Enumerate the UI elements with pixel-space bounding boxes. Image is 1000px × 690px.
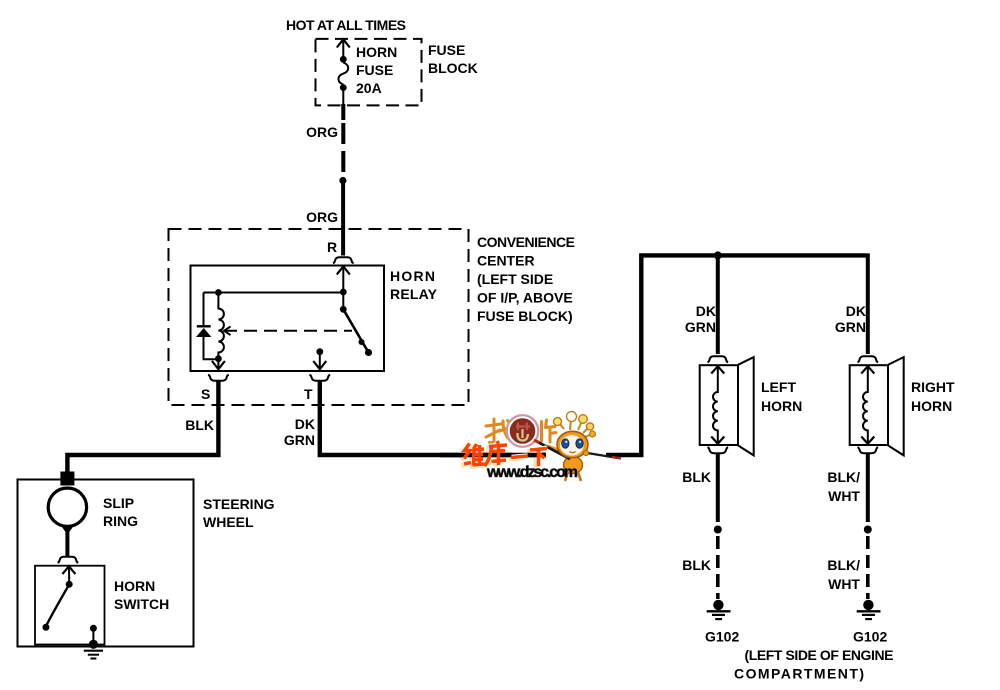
pin label S — [201, 386, 210, 402]
label DK GRN (relay output) — [284, 416, 315, 448]
mechanical linkage (dashed) from coil to contact arm — [224, 327, 352, 336]
pin label R — [327, 239, 337, 255]
label BLK/WHT (right horn lower) — [827, 557, 860, 592]
ground G102 (left) — [707, 600, 731, 619]
label RIGHT HORN — [911, 379, 955, 414]
svg-text:DK: DK — [696, 303, 716, 319]
svg-text:ORG: ORG — [306, 209, 338, 225]
svg-text:(LEFT SIDE: (LEFT SIDE — [477, 271, 553, 287]
ground G102 (right) — [857, 600, 881, 619]
right horn body — [850, 357, 904, 455]
svg-text:DK: DK — [295, 416, 315, 432]
horn switch box — [35, 566, 105, 645]
splice dot on left horn ground wire — [714, 526, 722, 534]
connector (female) at right horn top — [858, 356, 879, 362]
wire DK GRN from relay T to horns — [320, 255, 866, 455]
label G102 (right) — [853, 629, 887, 645]
label BLK (left horn lower) — [682, 557, 711, 573]
node T contact dot — [316, 348, 323, 355]
wire BLK/WHT below right horn (solid) — [866, 453, 870, 522]
svg-text:S: S — [201, 386, 210, 402]
connector (female) at left horn bottom — [708, 447, 729, 453]
label ORG (lower) — [306, 209, 338, 225]
watermark char pian (chip) — [542, 420, 557, 442]
label HORN SWITCH — [114, 578, 169, 612]
connector (female) at left horn top — [708, 356, 729, 362]
svg-text:OF I/P, ABOVE: OF I/P, ABOVE — [477, 290, 573, 306]
wire from slip ring to horn switch — [65, 530, 69, 556]
svg-text:BLK: BLK — [185, 417, 214, 433]
connector (female) above horn switch — [58, 557, 79, 563]
wire BLK below left horn (solid) — [716, 453, 720, 522]
junction node switch pivot — [340, 306, 347, 313]
svg-text:HOT AT ALL TIMES: HOT AT ALL TIMES — [286, 17, 406, 33]
svg-text:G102: G102 — [705, 629, 739, 645]
label DK GRN (left horn) — [685, 303, 716, 335]
wire relay internal horizontal — [204, 292, 344, 294]
horn switch pivot dot — [66, 581, 73, 588]
svg-text:LEFT: LEFT — [761, 379, 796, 395]
junction node coil bottom — [215, 355, 222, 362]
label ORG (upper) — [306, 124, 338, 140]
svg-text:HORN: HORN — [911, 398, 952, 414]
horn switch blade end dot — [42, 624, 49, 631]
svg-text:FUSE: FUSE — [428, 42, 465, 58]
label G102 (left) — [705, 629, 739, 645]
label HORN RELAY — [390, 268, 438, 302]
splice junction dot on ORG wire — [339, 177, 346, 184]
wire ORG lower solid segment to relay terminal R — [341, 181, 345, 256]
svg-text:RELAY: RELAY — [390, 286, 438, 302]
label HOT AT ALL TIMES — [286, 17, 406, 33]
label FUSE BLOCK — [428, 42, 478, 76]
label LEFT SIDE OF ENGINE COMPARTMENT — [734, 647, 894, 682]
svg-text:CENTER: CENTER — [477, 253, 535, 269]
junction dot above fuse — [340, 56, 347, 63]
wire DK GRN to left horn — [716, 255, 720, 354]
horn switch fixed contact dot — [90, 625, 97, 632]
left horn body — [700, 357, 754, 455]
wire diode branch (left leg) — [204, 293, 219, 360]
terminal arrow (male) R inside relay — [337, 266, 350, 274]
svg-text:FUSE BLOCK): FUSE BLOCK) — [477, 308, 573, 324]
connector (female) at relay pin R — [333, 257, 354, 263]
junction node at relay top right — [340, 289, 347, 296]
horn relay box — [191, 266, 385, 372]
wire contact to ground — [92, 628, 94, 643]
svg-text:WHT: WHT — [828, 488, 860, 504]
wire ORG solid segment below fuse — [342, 91, 344, 121]
slip ring circle — [48, 488, 86, 526]
svg-text:(LEFT SIDE OF ENGINE: (LEFT SIDE OF ENGINE — [745, 647, 894, 663]
svg-text:SLIP: SLIP — [103, 495, 134, 511]
ground at horn switch — [84, 640, 103, 659]
relay coil winding — [218, 293, 224, 360]
switch blade mid blob — [359, 339, 365, 345]
label DK GRN (right horn) — [835, 303, 866, 335]
label BLK (left horn upper) — [682, 469, 711, 485]
svg-text:www.dzsc.com: www.dzsc.com — [486, 464, 578, 481]
wire relay node to switch pivot — [342, 292, 344, 309]
wire BLK from relay S to steering wheel slip ring — [67, 381, 218, 479]
terminal arrow (male) at fuse block feed — [337, 39, 350, 47]
watermark white backing for mascot — [546, 445, 606, 465]
terminal arrow (male) T inside relay — [313, 352, 326, 370]
svg-text:20A: 20A — [356, 80, 382, 96]
steering wheel box — [18, 480, 194, 647]
connector (female) at relay pin S — [208, 375, 229, 381]
left horn coil with terminal arrows — [711, 366, 724, 444]
wire BLK dashed to ground G102 (left) — [716, 536, 720, 599]
switch fixed contact dot — [365, 349, 372, 356]
value label HORN FUSE 20A — [356, 44, 397, 96]
label CONVENIENCE CENTER (LEFT SIDE OF I/P, ABOVE FUSE BLOCK) — [477, 234, 575, 324]
junction dot below fuse — [340, 84, 347, 91]
splice dot on right horn ground wire — [864, 526, 872, 534]
svg-text:R: R — [327, 239, 337, 255]
watermark mascot — [534, 412, 621, 482]
svg-text:DK: DK — [846, 303, 866, 319]
svg-text:SWITCH: SWITCH — [114, 596, 169, 612]
svg-text:G102: G102 — [853, 629, 887, 645]
fuse block enclosure (dashed box) — [316, 39, 422, 106]
label BLK (steering wheel feed) — [185, 417, 214, 433]
svg-text:GRN: GRN — [284, 432, 315, 448]
pin label T — [304, 386, 313, 402]
label SLIP RING — [103, 495, 138, 529]
slip ring wiper contact — [61, 526, 73, 535]
svg-text:HORN: HORN — [356, 44, 397, 60]
horn switch movable blade — [46, 584, 69, 626]
wire DK GRN to right horn — [866, 253, 870, 354]
label LEFT HORN — [761, 379, 802, 414]
svg-text:BLOCK: BLOCK — [428, 60, 478, 76]
terminal arrow (male) S inside relay — [212, 359, 225, 370]
wire DK GRN restored under watermark text — [440, 453, 546, 457]
wire relay internal: R arrow down to node — [342, 266, 344, 292]
convenience center enclosure (dashed box) — [169, 229, 469, 405]
connector (female) at right horn bottom — [858, 447, 879, 453]
svg-text:BLK: BLK — [682, 469, 711, 485]
svg-text:RING: RING — [103, 513, 138, 529]
svg-text:WHEEL: WHEEL — [203, 514, 254, 530]
svg-text:HORN: HORN — [114, 578, 155, 594]
svg-text:FUSE: FUSE — [356, 62, 393, 78]
svg-text:RIGHT: RIGHT — [911, 379, 955, 395]
svg-text:STEERING: STEERING — [203, 496, 275, 512]
svg-text:ORG: ORG — [306, 124, 338, 140]
svg-text:BLK/: BLK/ — [827, 557, 860, 573]
switch movable contact arm — [343, 309, 368, 352]
watermark text wei ku yi xia (white casing) — [464, 441, 547, 466]
watermark text wei ku yi xia (shadow) — [462, 443, 545, 468]
svg-text:T: T — [304, 386, 313, 402]
watermark char zhao (find) — [486, 419, 511, 443]
wire BLK/WHT dashed to ground G102 (right) — [866, 536, 870, 599]
svg-text:BLK: BLK — [682, 557, 711, 573]
terminal arrow (male) into horn switch — [62, 566, 75, 584]
connector (female) at relay pin T — [310, 375, 331, 381]
svg-text:HORN: HORN — [761, 398, 802, 414]
watermark text wei ku yi xia (red) — [464, 441, 547, 466]
right horn coil with terminal arrows — [861, 366, 874, 444]
fuse F1 element (squiggle) — [338, 63, 348, 85]
slip ring terminal square — [60, 472, 74, 486]
svg-text:GRN: GRN — [835, 319, 866, 335]
junction dot at horn branch — [714, 251, 722, 259]
label BLK/WHT (right horn upper) — [827, 469, 860, 504]
label STEERING WHEEL — [203, 496, 275, 530]
wire ORG dashed segment — [341, 123, 345, 176]
watermark url www.dzsc.com — [486, 464, 578, 481]
svg-text:GRN: GRN — [685, 319, 716, 335]
svg-text:BLK/: BLK/ — [827, 469, 860, 485]
junction node coil top — [215, 289, 222, 296]
svg-text:WHT: WHT — [828, 576, 860, 592]
watermark magnifier with chip character — [507, 415, 539, 447]
svg-text:COMPARTMENT): COMPARTMENT) — [734, 666, 864, 682]
svg-text:CONVENIENCE: CONVENIENCE — [477, 234, 575, 250]
wire from feed arrow to fuse — [342, 39, 344, 56]
diode CR (cathode bar up, anode triangle) — [196, 326, 211, 337]
